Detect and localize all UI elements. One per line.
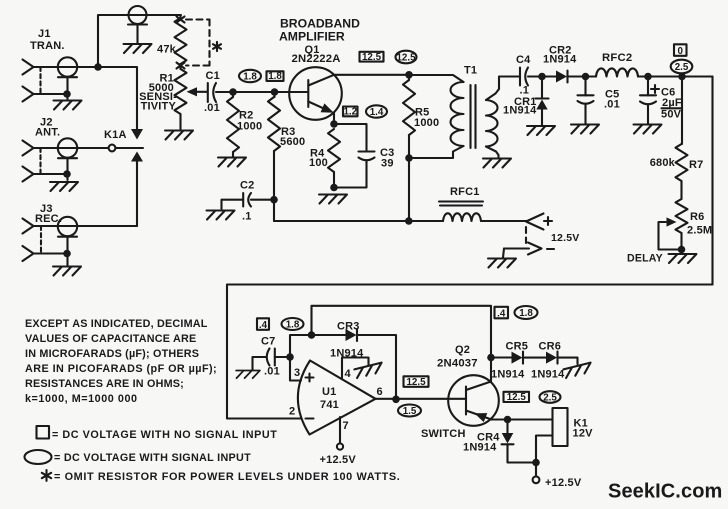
wire [34,225,138,227]
connector +12.5V (supply) [526,214,544,230]
svg-text:IN MICROFARADS (µF); OTHERS: IN MICROFARADS (µF); OTHERS [25,348,199,360]
svg-text:2.5: 2.5 [543,392,557,403]
wire output [376,398,467,400]
svg-text:2N2222A: 2N2222A [292,53,341,65]
node label 1.8 (oval) [239,70,261,82]
svg-text:SWITCH: SWITCH [421,428,466,440]
ground [207,211,235,220]
svg-text:12.5V: 12.5V [551,232,579,244]
node label 1.5 (oval) [398,405,421,417]
svg-text:= DC VOLTAGE WITH SIGNAL I: = DC VOLTAGE WITH SIGNAL INPUT [54,452,251,464]
svg-text:TRAN.: TRAN. [30,40,65,52]
capacitor C6 2uF 50V [651,85,659,93]
svg-text:RFC1: RFC1 [450,186,480,198]
svg-text:0: 0 [678,46,684,57]
node label 0 (box) [674,44,687,56]
svg-text:VALUES OF CAPACITANCE ARE: VALUES OF CAPACITANCE ARE [25,333,196,345]
svg-text:SeekIC.com: SeekIC.com [608,481,722,503]
ground [669,254,697,263]
wire [98,15,181,67]
wire [136,161,138,226]
node label 1.8 (oval) [282,318,304,330]
svg-text:12.5: 12.5 [396,52,416,63]
svg-text:47k: 47k [157,44,177,56]
wire emitter to K1 [492,418,553,420]
node label .4 (box) [257,318,269,330]
svg-text:741: 741 [320,399,339,411]
svg-text:C2: C2 [240,180,254,192]
feedthrough capacitor (top) [129,6,147,24]
node label 2.5 (oval) [540,391,561,403]
svg-text:EXCEPT AS INDICATED, DECIMAL: EXCEPT AS INDICATED, DECIMAL [25,318,208,330]
svg-text:1000: 1000 [237,121,262,133]
svg-text:680k: 680k [650,157,676,169]
svg-text:2.5M: 2.5M [687,225,712,237]
svg-text:.01: .01 [604,99,620,111]
ground [483,159,511,168]
node junction [286,353,294,361]
legend: asterisk [42,470,51,481]
svg-text:1.8: 1.8 [519,308,533,319]
relay coil K1 12V [553,408,568,446]
op-amp U1 741 [298,361,376,435]
node label 12.5 (box) [504,392,530,402]
node junction [94,63,102,71]
svg-text:ARE IN PICOFARADS (pF OR µµF);: ARE IN PICOFARADS (pF OR µµF); [25,363,217,375]
ground [165,131,193,140]
svg-text:+12.5V: +12.5V [545,477,582,489]
svg-text:39: 39 [381,158,394,170]
svg-text:1.8: 1.8 [243,71,257,82]
node label 1.8 (box) [267,71,284,81]
svg-text:AMPLIFIER: AMPLIFIER [279,30,345,44]
svg-text:T1: T1 [464,65,477,77]
ground [571,125,599,134]
svg-text:1.8: 1.8 [286,319,300,330]
ground [319,195,347,204]
ground [218,158,246,167]
svg-text:RESISTANCES ARE IN OHMS;: RESISTANCES ARE IN OHMS; [25,378,184,390]
svg-text:.1: .1 [242,211,252,223]
svg-text:C4: C4 [516,54,531,66]
svg-text:RFC2: RFC2 [602,52,632,64]
svg-text:J1: J1 [38,28,51,40]
svg-text:100: 100 [309,157,328,169]
svg-text:DELAY: DELAY [627,253,663,265]
node label .4 (box) [495,307,509,319]
node label 1.4 (oval) [366,105,387,117]
ground [124,44,152,53]
svg-text:K1A: K1A [104,129,127,141]
svg-text:2µF: 2µF [662,97,682,109]
svg-text:1.8: 1.8 [268,71,282,82]
svg-text:k=1000, M=1000 000: k=1000, M=1000 000 [25,393,138,405]
svg-text:= DC VOLTAGE WITH NO SIGNA: = DC VOLTAGE WITH NO SIGNAL INPUT [52,429,277,441]
ground [488,259,516,268]
svg-text:= OMIT RESISTOR FOR POWER: = OMIT RESISTOR FOR POWER LEVELS UNDER 1… [54,471,400,483]
svg-text:C7: C7 [261,336,275,348]
ground [50,182,78,191]
node label 1.8 (oval) [515,306,538,319]
node label 1.2 (box) [343,107,358,117]
ground [53,267,81,276]
svg-text:50V: 50V [661,109,682,121]
svg-text:R7: R7 [689,159,703,171]
svg-text:12.5: 12.5 [362,52,382,63]
wire bottom rail [274,220,526,222]
svg-text:1.2: 1.2 [343,107,357,118]
ground [527,126,555,135]
svg-text:.01: .01 [264,366,280,378]
svg-text:.4: .4 [497,309,506,320]
svg-text:+12.5V: +12.5V [320,454,357,466]
svg-text:.4: .4 [259,320,268,331]
svg-text:2N4037: 2N4037 [437,358,478,370]
svg-text:U1: U1 [322,386,336,398]
ground [354,363,383,379]
svg-text:Q2: Q2 [455,344,470,356]
wire [34,93,68,95]
svg-text:1N914: 1N914 [463,442,497,454]
wire Q2 collector rail [312,306,492,358]
wire Q1 base [233,91,307,93]
ground [236,371,260,379]
ground [54,101,82,110]
svg-text:R6: R6 [690,211,704,223]
svg-text:2.5: 2.5 [675,62,689,73]
svg-text:1N914: 1N914 [491,369,525,381]
legend: oval voltage [25,450,52,464]
svg-text:ANT.: ANT. [35,127,60,139]
svg-text:1000: 1000 [414,117,439,129]
svg-text:1N914: 1N914 [543,54,577,66]
svg-text:3: 3 [294,367,300,379]
svg-text:4: 4 [345,368,352,380]
svg-text:2: 2 [289,406,295,418]
svg-text:12V: 12V [573,428,594,440]
wire [290,335,346,381]
svg-text:1N914: 1N914 [531,369,565,381]
svg-text:7: 7 [343,420,349,432]
wire [34,67,138,129]
wire collector [334,74,409,76]
wire [34,147,109,149]
node label 12.5 (box) [404,376,429,387]
svg-text:12.5: 12.5 [406,377,426,388]
svg-text:TIVITY: TIVITY [141,101,177,113]
node label 2.5 (oval) [671,60,693,74]
wire feedback rail [227,285,713,419]
node label 12.5 (oval) [396,51,417,64]
svg-text:6: 6 [377,386,383,398]
terminal +12.5V [535,463,537,477]
ground [563,363,592,379]
wire pin 4 to ground [342,358,369,379]
legend: boxed voltage [37,426,50,439]
node label 12.5 (box) [360,52,384,62]
wire to R7 [681,77,683,145]
svg-text:1.4: 1.4 [370,107,384,118]
svg-text:5600: 5600 [280,136,305,148]
node junction [270,196,278,204]
svg-text:1N914: 1N914 [503,105,537,117]
svg-text:C1: C1 [206,70,220,82]
svg-text:12.5: 12.5 [507,392,527,403]
svg-text:BROADBAND: BROADBAND [280,17,360,31]
wire right edge [711,77,713,285]
svg-text:1.5: 1.5 [403,406,417,417]
pin 7 supply [339,417,341,444]
svg-text:CR5: CR5 [506,341,529,353]
wire emitter [334,113,367,152]
ground [634,125,662,134]
svg-text:.01: .01 [204,102,220,114]
omit link (dashed) with asterisk [186,20,210,66]
